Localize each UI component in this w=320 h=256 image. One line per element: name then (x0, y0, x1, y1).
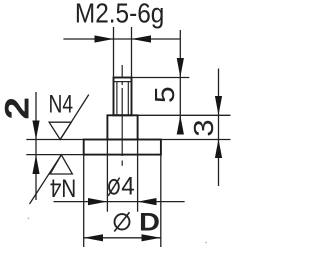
svg-text:2: 2 (0, 97, 36, 120)
svg-text:N4: N4 (49, 90, 74, 118)
svg-text:3: 3 (189, 119, 220, 136)
svg-text:N4: N4 (50, 174, 77, 202)
svg-text:D: D (139, 207, 160, 236)
svg-text:M2.5-6g: M2.5-6g (75, 0, 164, 29)
svg-text:4: 4 (121, 173, 135, 201)
svg-text:5: 5 (150, 86, 181, 103)
